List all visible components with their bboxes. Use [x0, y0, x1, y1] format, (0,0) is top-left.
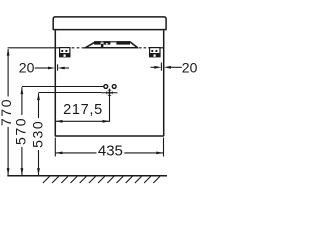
rail base under trapezoid	[84, 47, 138, 49]
rail slot separator	[101, 44, 104, 48]
hidden rail dashed line left	[72, 47, 85, 49]
dim 20 right tail left	[151, 66, 156, 68]
dim 570 up arrow	[21, 87, 24, 94]
rail slot bar 1	[94, 41, 101, 44]
supply connection circle left	[104, 85, 108, 89]
hidden rail dashed line right	[139, 47, 150, 49]
dim 217,5 right arrow	[103, 120, 110, 123]
supply connection circle right	[112, 85, 116, 89]
dim 530 down arrow	[37, 168, 40, 175]
rail cover trapezoid	[86, 42, 138, 48]
dim 570 down arrow	[21, 168, 24, 175]
dim 217,5 left arrow	[56, 120, 63, 123]
svg-text:217,5: 217,5	[63, 102, 103, 118]
dim 20 right arrow left-pointing	[164, 66, 171, 69]
drain symbol crosshair	[101, 90, 118, 96]
dim 435 right arrow	[156, 152, 163, 155]
dim 20 left dimension line	[35, 67, 49, 69]
dim 20 left arrow right-pointing	[48, 67, 55, 70]
dim 20 left tail	[63, 67, 69, 69]
dim 20 left arrow left-pointing	[58, 67, 65, 70]
rail line right solid part	[150, 47, 164, 49]
dim 20 right extension tick	[160, 63, 162, 71]
svg-text:20: 20	[182, 59, 198, 75]
dim 217,5 dimension line	[55, 120, 109, 122]
dim 570 vertical line	[21, 87, 23, 175]
rail slot notch	[106, 43, 108, 44]
dim 435 left arrow	[56, 152, 63, 155]
washbasin top	[53, 17, 166, 30]
dim 20 right line to label	[171, 66, 182, 68]
dim 435 left extension	[54, 138, 56, 157]
dim 435 dimension line	[55, 152, 163, 154]
right wall bracket	[150, 48, 160, 57]
floor line	[7, 175, 167, 177]
dim 530 vertical line	[38, 93, 40, 175]
rail slot bar 2	[104, 41, 111, 44]
dim 217,5 leader from drain	[109, 89, 111, 122]
dim 570 extension line	[22, 86, 104, 88]
mounting rail line / 770 extension (solid left part)	[8, 47, 71, 49]
dim 20 left extension tick	[57, 64, 59, 70]
dim 770 vertical line	[7, 49, 9, 175]
dim 530 extension line	[39, 92, 102, 94]
cabinet body	[55, 30, 164, 136]
left wall bracket	[60, 48, 70, 57]
dim 770 down arrow	[7, 168, 10, 175]
dim 435 right extension	[163, 138, 165, 157]
dim 20 right arrow right-pointing	[154, 66, 161, 69]
svg-text:435: 435	[98, 142, 123, 159]
rail slot bar 3	[116, 41, 130, 44]
svg-text:20: 20	[19, 59, 35, 75]
floor hatching	[43, 176, 160, 183]
svg-text:570: 570	[13, 117, 29, 145]
svg-text:530: 530	[30, 120, 46, 148]
dim 770 up arrow	[7, 49, 10, 56]
dim 530 up arrow	[37, 93, 40, 100]
